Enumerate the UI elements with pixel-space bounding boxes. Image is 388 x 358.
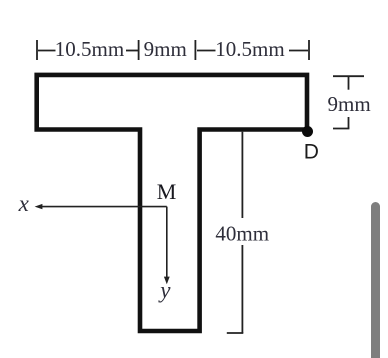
svg-text:x: x: [18, 191, 30, 216]
svg-text:D: D: [304, 140, 319, 163]
svg-text:10.5mm: 10.5mm: [55, 37, 124, 61]
svg-text:M: M: [157, 179, 177, 204]
svg-text:y: y: [158, 278, 171, 303]
svg-text:9mm: 9mm: [328, 92, 371, 116]
svg-text:10.5mm: 10.5mm: [215, 37, 284, 61]
svg-text:40mm: 40mm: [215, 222, 269, 246]
svg-text:9mm: 9mm: [144, 37, 187, 61]
